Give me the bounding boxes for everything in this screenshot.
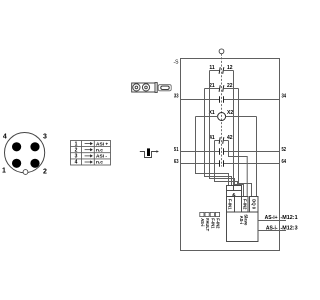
- wire AS-i+: [258, 220, 286, 222]
- actuator head: [219, 49, 224, 54]
- svg-text:-M12:1: -M12:1: [281, 215, 298, 221]
- svg-text:64: 64: [282, 159, 287, 165]
- svg-text:-S: -S: [174, 60, 180, 66]
- svg-text:DQ 0: DQ 0: [251, 199, 256, 209]
- svg-text:41: 41: [209, 135, 215, 141]
- svg-text:2: 2: [43, 168, 47, 175]
- wire from lamp X1 to logic: [196, 117, 229, 186]
- wire from 41 to logic: [215, 141, 238, 186]
- svg-text:2: 2: [75, 147, 78, 153]
- svg-text:AS-i: AS-i: [239, 216, 244, 224]
- wire from 42 to F-IN2: [229, 141, 248, 197]
- wire from 12 to F-IN2: [234, 71, 244, 197]
- connector X1 M12 face view: [5, 133, 45, 173]
- svg-text:22: 22: [227, 83, 233, 89]
- contact 11-12: [210, 67, 234, 74]
- LED AS-i: [200, 212, 204, 216]
- pin 1: [12, 159, 21, 168]
- svg-text:33: 33: [174, 93, 179, 99]
- svg-text:63: 63: [174, 159, 179, 165]
- svg-text:F-IN2: F-IN2: [216, 218, 221, 229]
- svg-text:X2: X2: [227, 110, 233, 116]
- table arrows: [85, 143, 93, 163]
- svg-text:ASI -: ASI -: [96, 154, 107, 160]
- svg-text:AS-i: AS-i: [200, 218, 205, 226]
- svg-text:FAULT: FAULT: [205, 218, 210, 231]
- svg-text:ASI +: ASI +: [96, 141, 108, 147]
- contact 21-22: [205, 85, 239, 92]
- svg-text:51: 51: [174, 147, 179, 153]
- LED F-IN1: [210, 212, 214, 216]
- svg-text:11: 11: [209, 65, 215, 71]
- pin 3: [30, 142, 39, 151]
- svg-text:34: 34: [282, 93, 287, 99]
- svg-text:52: 52: [282, 147, 287, 153]
- svg-text:21: 21: [209, 83, 215, 89]
- lamp H1: [218, 113, 226, 121]
- svg-text:42: 42: [227, 135, 233, 141]
- wire AS-i-: [258, 230, 286, 232]
- svg-text:F-IN2: F-IN2: [242, 199, 247, 210]
- wire from 22 to DQ0: [239, 89, 252, 197]
- pin assignment table: [71, 141, 111, 166]
- pin box F-IN2: [242, 197, 249, 213]
- svg-text:1: 1: [75, 141, 78, 147]
- wire from 11 to logic: [210, 71, 235, 186]
- AND gate U1: [227, 186, 242, 197]
- pin box DQ0: [250, 197, 259, 213]
- pin box F-IN1: [227, 197, 235, 213]
- rail 63-64: [181, 160, 280, 167]
- svg-text:4: 4: [3, 134, 7, 141]
- svg-text:n.c: n.c: [96, 161, 103, 166]
- wire from lamp X2 to DQ0: [256, 117, 258, 197]
- pin 2: [30, 159, 39, 168]
- svg-text:F-IN1: F-IN1: [210, 218, 215, 229]
- wire from 21 to logic: [205, 89, 232, 186]
- svg-text:n.c: n.c: [96, 148, 103, 153]
- LED FAULT: [205, 212, 209, 216]
- svg-text:AS-i+: AS-i+: [265, 215, 278, 221]
- AS-i slave U2: [227, 212, 259, 242]
- wire lamp right: [226, 116, 257, 118]
- table net names: [96, 141, 108, 165]
- svg-text:AS-i-: AS-i-: [266, 225, 278, 231]
- svg-text:1: 1: [2, 167, 6, 174]
- table pin numbers: [75, 141, 78, 165]
- svg-text:-M12:3: -M12:3: [281, 225, 298, 231]
- wire lamp left: [196, 116, 218, 118]
- LED F-IN2: [215, 212, 219, 216]
- svg-text:3: 3: [75, 154, 78, 160]
- rail 33-34: [181, 96, 280, 103]
- svg-text:3: 3: [43, 134, 47, 141]
- connector plug side view: [132, 83, 172, 93]
- svg-text:12: 12: [227, 65, 233, 71]
- contact 41-42: [215, 137, 229, 144]
- pin 4: [12, 142, 21, 151]
- enclosure outline: [181, 59, 280, 251]
- svg-text:Slave: Slave: [244, 214, 249, 226]
- svg-text:F-IN1: F-IN1: [228, 199, 233, 210]
- mechanical link (dashed): [221, 54, 223, 167]
- key actuation symbol: [140, 148, 159, 157]
- rail 51-52: [181, 148, 280, 155]
- keyway notch: [23, 170, 28, 175]
- svg-text:4: 4: [75, 160, 78, 166]
